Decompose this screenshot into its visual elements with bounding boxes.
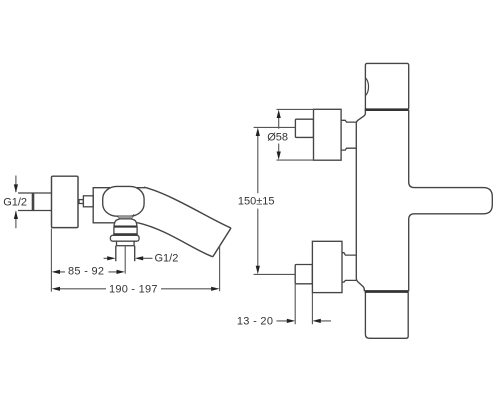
svg-text:150±15: 150±15 (238, 196, 275, 208)
body column right edge and spout (side) (409, 110, 493, 292)
top cap thick base line (365, 108, 409, 111)
diverter dome groove (114, 226, 138, 228)
bottom cap thick top line (365, 290, 409, 293)
body column left edge (356, 110, 365, 292)
lower knob neck (342, 253, 356, 282)
upper knob cap (295, 119, 313, 137)
spout tip face (213, 228, 231, 257)
svg-text:190 - 197: 190 - 197 (109, 283, 158, 295)
svg-text:G1/2: G1/2 (3, 197, 27, 209)
outlet centre extension line (124, 246, 126, 274)
dimension G1/2 (wall pipe) line (15, 176, 17, 229)
diverter bell dome (114, 219, 137, 226)
dimension 13-20 line (277, 320, 332, 322)
dimension Ø58 extension lines (277, 109, 315, 160)
spout top curve (144, 187, 231, 228)
wall flange (52, 176, 79, 227)
connector tab (79, 200, 83, 204)
dimension 13-20 extension lines (295, 284, 312, 325)
lower knob block (312, 241, 342, 292)
dimension Ø58 arrow up (277, 110, 281, 118)
lower knob cap (295, 265, 312, 284)
upper knob block (314, 109, 342, 160)
svg-text:13 - 20: 13 - 20 (237, 315, 273, 327)
dimension G1/2 (outlet) line (104, 257, 153, 259)
wall supply pipe G1/2 (18, 193, 52, 211)
dimension Ø58 line (278, 118, 280, 152)
dimension Ø58 arrow down (277, 152, 281, 160)
wall pipe thread end cap (32, 193, 35, 211)
dimension 150±15 arrow up (256, 128, 260, 136)
top cap side mark (366, 78, 369, 95)
aerator flange (110, 235, 139, 241)
dimension 13-20 arrow left (312, 319, 320, 323)
valve body (93, 188, 145, 223)
dimension 190-197 arrow right (211, 287, 219, 291)
extension line left (flange edge) (50, 228, 52, 291)
spout bottom curve (138, 223, 213, 257)
dimension G1/2 (outlet) arrow left (135, 256, 143, 260)
dimension 190-197 line (60, 288, 211, 290)
diverter neck waist (117, 215, 134, 219)
dimension G1/2 (outlet) arrow right (107, 256, 115, 260)
dimension 150±15 reference stubs (254, 127, 296, 274)
dimension 190-197 arrow left (52, 287, 60, 291)
dimension G1/2 (wall pipe) arrow up (14, 211, 18, 219)
upper knob neck (341, 120, 356, 150)
connector nut (83, 196, 93, 207)
bottom cap (365, 291, 408, 338)
dimension 150±15 arrow down (256, 266, 260, 274)
outlet pipe G1/2 (116, 246, 135, 262)
extension line right (spout tip) (219, 246, 221, 291)
dimension 85-92 line (60, 271, 117, 273)
dimension G1/2 (wall pipe) arrow down (14, 184, 18, 192)
top cap (365, 63, 408, 109)
aerator ring (117, 241, 135, 246)
dimension 13-20 arrow right (287, 319, 295, 323)
diverter dark band (114, 233, 138, 235)
diverter neck shade band (118, 216, 132, 218)
diverter body block (114, 227, 137, 235)
svg-text:G1/2: G1/2 (155, 253, 179, 265)
svg-text:Ø58: Ø58 (267, 131, 288, 143)
cartridge cap (lever dome) (103, 186, 144, 216)
dimension 85-92 arrow left (52, 270, 60, 274)
svg-text:85 - 92: 85 - 92 (68, 266, 104, 278)
dimension 85-92 arrow right (117, 270, 125, 274)
dimension 150±15 line (257, 136, 259, 266)
